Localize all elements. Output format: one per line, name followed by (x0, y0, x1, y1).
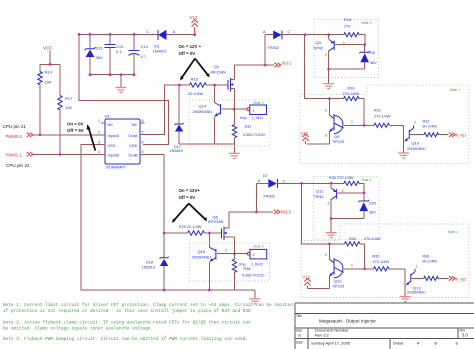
resistor R20 22-1/4W (164, 225, 221, 235)
svg-text:Q3: Q3 (316, 40, 322, 45)
wire clamp node ch1 (305, 34, 344, 36)
schottky D18 1N5819 (142, 233, 169, 290)
power V12 ch1 (301, 131, 309, 144)
svg-text:R15: R15 (191, 77, 199, 82)
resistor R32 1K-1/4W (422, 120, 449, 137)
dashed note3 box ch2 (189, 243, 269, 281)
svg-text:R32: R32 (423, 120, 430, 124)
svg-text:36V: 36V (370, 61, 377, 65)
svg-text:Sunday April 17, 2005: Sunday April 17, 2005 (311, 341, 351, 346)
node Q3 base / D6 junction (363, 43, 366, 46)
ground ch2 sense rail (249, 290, 260, 304)
svg-text:2N3904BU: 2N3904BU (192, 254, 212, 259)
svg-text:D7: D7 (263, 174, 268, 178)
MOSFET Q5 IRFZ34N (208, 212, 235, 254)
resistor R34 270-1/4W (329, 237, 380, 269)
svg-text:36V: 36V (96, 55, 103, 60)
svg-text:R35: R35 (373, 255, 380, 259)
svg-text:22-1/4W: 22-1/4W (188, 91, 203, 96)
resistor R36 1K-1/4W (422, 255, 449, 281)
diode D7 FR302 (257, 174, 302, 198)
svg-text:Off = 0V: Off = 0V (179, 51, 196, 56)
svg-text:Note 3: Flyback PWM damping ci: Note 3: Flyback PWM damping circuit. Cir… (3, 337, 248, 342)
node INJ-2 junction (255, 211, 258, 214)
wire Q5 drain to INJ2 node (229, 211, 257, 213)
wire ch1 sense rail (179, 143, 234, 145)
power V12 ch2 (303, 274, 311, 288)
svg-text:270-1/4W: 270-1/4W (343, 92, 360, 96)
svg-text:4.7: 4.7 (141, 54, 147, 59)
svg-text:OutB: OutB (128, 153, 137, 158)
svg-text:PWM0-1: PWM0-1 (6, 134, 23, 139)
capacitor C13 (105, 34, 125, 74)
zener D21 (85, 34, 104, 74)
diode D5 FR302 (263, 29, 305, 50)
wire clamp node ch2 (302, 182, 344, 184)
resistor R31 270-1/4W (364, 109, 404, 128)
svg-text:R18: R18 (344, 18, 351, 22)
svg-text:TIP42: TIP42 (314, 195, 324, 199)
resistor R14 (38, 64, 53, 134)
U4 pin 1 stub (101, 122, 105, 124)
ground clamp ch1 (323, 69, 334, 89)
wire clamp bottom ch2 (331, 218, 364, 220)
node PWM0/R14 junction (39, 133, 42, 136)
transistor Q9 TIP125 (307, 99, 364, 144)
resistor R33 270-1/4W (329, 176, 364, 193)
svg-text:TIP125: TIP125 (332, 140, 344, 144)
connector INJ-2 (257, 210, 292, 215)
node gate Q1 junction (213, 84, 216, 87)
svg-text:7: 7 (142, 130, 144, 134)
connector PWM1-1 CPU pin 22 (6, 152, 34, 168)
svg-text:V12: V12 (303, 274, 311, 279)
svg-text:NC: NC (108, 122, 114, 127)
svg-text:VCC: VCC (43, 46, 53, 51)
ground Q10 (398, 153, 409, 158)
svg-text:2N3904BU: 2N3904BU (193, 109, 213, 114)
node D7 cathode junction (300, 182, 303, 185)
svg-text:270-1/4W: 270-1/4W (364, 237, 381, 241)
dashed note1 box ch2 (301, 224, 469, 298)
svg-text:InputB: InputB (108, 153, 120, 158)
node R20 junction (163, 232, 166, 235)
svg-text:2: 2 (325, 109, 327, 113)
svg-text:C: C (146, 29, 149, 34)
svg-text:A: A (173, 29, 176, 34)
svg-text:D6: D6 (370, 51, 375, 55)
svg-text:Q10: Q10 (412, 141, 420, 146)
svg-text:2: 2 (98, 130, 100, 134)
svg-text:Q13: Q13 (413, 285, 421, 290)
VCC power symbol (43, 46, 53, 65)
node D18 rail junction (163, 289, 166, 292)
wire INJ node riser (264, 35, 266, 65)
node PWM1/R17 junction (59, 153, 62, 156)
transistor Q13 2N3904 (405, 264, 426, 296)
wire supply loop to VDD (79, 34, 169, 144)
svg-text:10K: 10K (45, 80, 52, 85)
svg-text:D21: D21 (96, 46, 104, 51)
wire PWM1 net (33, 153, 105, 155)
node Q15 collector junction (208, 232, 211, 235)
resistor R37 current sense (232, 109, 265, 144)
svg-text:Sheet: Sheet (393, 341, 404, 346)
svg-text:1: 1 (98, 119, 100, 123)
schottky D17 1N5819 (170, 85, 184, 153)
svg-text:Rev 3.2: Rev 3.2 (315, 333, 330, 338)
svg-text:Note 2: Note 2 (362, 21, 372, 25)
svg-text:A: A (263, 29, 266, 34)
svg-text:10K: 10K (65, 105, 72, 110)
wire R15 to Q1 gate (206, 84, 228, 86)
svg-text:Note 3: Note 3 (254, 101, 264, 105)
svg-text:8: 8 (142, 119, 144, 123)
svg-text:Q14: Q14 (199, 104, 207, 109)
node Q1 source junction (233, 108, 236, 111)
svg-text:VDD: VDD (129, 143, 138, 148)
svg-text:Q5: Q5 (213, 215, 219, 220)
wire Q1 drain to INJ node (235, 64, 266, 66)
node Q3 emitter junction (327, 33, 330, 36)
wire OutB net riser (140, 154, 164, 233)
svg-text:On = 12V+: On = 12V+ (179, 188, 201, 193)
svg-text:Q1: Q1 (214, 64, 220, 69)
svg-text:D20: D20 (369, 202, 376, 206)
connector PWM0-1 CPU pin 21 (3, 124, 34, 139)
svg-text:IRFZ34N: IRFZ34N (211, 70, 227, 74)
U4 pin numbers (98, 119, 144, 154)
svg-text:be omitted. Clamp voltage equa: be omitted. Clamp voltage equals zener a… (3, 327, 153, 332)
annotation gate levels ch1 (179, 44, 210, 81)
wire clamp node to Q9 base (305, 35, 330, 99)
svg-text:C: C (283, 179, 286, 184)
transistor Q11 TIP42 (314, 183, 364, 218)
svg-text:R17: R17 (65, 96, 73, 101)
svg-text:VSS: VSS (108, 143, 116, 148)
resistor R18 270 (344, 18, 365, 45)
connector INJ-1 (265, 61, 292, 68)
ground Q13 (400, 297, 411, 302)
svg-text:2: 2 (328, 202, 330, 206)
wire clamp bottom ch1 (329, 68, 365, 70)
svg-text:Q9: Q9 (334, 134, 340, 139)
svg-text:Title: Title (296, 314, 302, 318)
notes text block (3, 303, 293, 342)
zener D20 36V (358, 193, 376, 219)
svg-text:1N5819: 1N5819 (142, 265, 155, 269)
node VCC junction (49, 63, 52, 66)
node Q11 base / D20 junction (362, 192, 365, 195)
svg-text:1N4001: 1N4001 (153, 48, 168, 53)
svg-text:2: 2 (414, 121, 416, 125)
svg-text:C: C (288, 29, 291, 34)
svg-text:Note 1: Note 1 (448, 230, 458, 234)
svg-text:0.050-TO220: 0.050-TO220 (243, 133, 265, 137)
svg-text:2: 2 (416, 264, 418, 268)
svg-text:Note 2: Note 2 (362, 178, 372, 182)
power V12 top (190, 15, 198, 36)
svg-text:Off = 0V: Off = 0V (179, 195, 196, 200)
svg-text:1N5819: 1N5819 (170, 149, 183, 153)
svg-text:1: 1 (343, 41, 345, 45)
transistor Q10 2N3904 (404, 121, 426, 153)
svg-text:Jmp: Jmp (239, 263, 246, 267)
svg-text:R20 22-1/4W: R20 22-1/4W (179, 225, 202, 229)
transistor Q14 2N3904 (193, 85, 235, 144)
node Q11 emitter junction (330, 182, 333, 185)
svg-text:R33 270-1/4W: R33 270-1/4W (329, 176, 354, 180)
svg-text:2: 2 (325, 53, 327, 57)
connector fi_inj2 (449, 276, 467, 281)
svg-text:V12: V12 (190, 15, 198, 20)
svg-text:IXDM404PI: IXDM404PI (106, 166, 125, 170)
svg-text:0.060-TO220: 0.060-TO220 (242, 273, 264, 277)
U4 pin 8 stub (140, 122, 145, 124)
svg-text:Date: Date (296, 341, 303, 345)
svg-text:R14: R14 (45, 70, 53, 75)
svg-text:A: A (298, 333, 301, 338)
jumper J_INJ2 (235, 249, 267, 266)
svg-text:5: 5 (142, 150, 144, 154)
dashed note3 box ch1 (189, 100, 270, 146)
wire PWM0 net (33, 134, 105, 136)
resistor R17 (58, 64, 73, 154)
svg-text:fi_inj2: fi_inj2 (456, 276, 467, 281)
svg-text:Note 3: Note 3 (254, 244, 264, 248)
node Q5 source junction (233, 252, 236, 255)
svg-text:1K-1/4W: 1K-1/4W (422, 124, 437, 128)
svg-text:J_INJ1: J_INJ1 (252, 116, 264, 120)
svg-text:R30: R30 (348, 87, 355, 91)
svg-text:Megasquirt - Output Injector: Megasquirt - Output Injector (319, 319, 376, 324)
svg-text:1: 1 (342, 189, 344, 193)
node bottom bus junctions (89, 73, 136, 76)
svg-text:36V: 36V (369, 211, 376, 215)
resistor R35 270-1/4W (365, 255, 406, 271)
node top bus junctions (78, 33, 136, 36)
svg-text:On = 12V +: On = 12V + (179, 44, 202, 49)
node R34/R35 junction (363, 267, 366, 270)
wire VCC node horizontal (40, 63, 61, 65)
node Q15 emitter rail junction (208, 289, 211, 292)
svg-text:R37: R37 (245, 125, 252, 129)
svg-text:Q15: Q15 (198, 249, 206, 254)
svg-text:1: 1 (351, 264, 353, 268)
svg-text:Note 1: Current limit circuit: Note 1: Current limit circuit for driver… (3, 303, 293, 308)
node Q12 base junction (328, 242, 331, 245)
svg-text:270: 270 (344, 25, 350, 29)
svg-text:6: 6 (142, 140, 144, 144)
svg-text:3: 3 (98, 140, 100, 144)
svg-text:CPU pin 22: CPU pin 22 (6, 163, 30, 168)
ground ch1 sense rail (229, 144, 240, 158)
node R30/R31 junction (363, 124, 366, 127)
svg-text:InputA: InputA (108, 133, 120, 138)
node R15 left / D17 junction (178, 84, 181, 87)
wire bottom ground bus (90, 74, 134, 76)
svg-text:0.1: 0.1 (116, 49, 122, 54)
jumper J_INJ1 (234, 105, 267, 120)
ground clamp ch2 (326, 219, 337, 238)
svg-text:J_INJ2: J_INJ2 (251, 263, 263, 267)
svg-text:1K-1/4W: 1K-1/4W (422, 259, 437, 263)
capacitor C14 (129, 34, 149, 74)
node Q11 collector junction (330, 217, 333, 220)
transistor Q3 TIP42 (313, 35, 365, 69)
dashed note2 box ch2 (313, 177, 379, 240)
svg-text:INJ-2: INJ-2 (281, 210, 292, 215)
svg-text:TIP42: TIP42 (313, 46, 323, 50)
transistor Q15 2N3904 (192, 233, 235, 290)
svg-text:TIP125: TIP125 (332, 285, 344, 289)
svg-text:NC: NC (132, 122, 138, 127)
svg-text:if protection is not required: if protection is not required or desired… (3, 309, 251, 314)
zener D6 36V (359, 45, 377, 69)
svg-text:4: 4 (98, 150, 100, 154)
ground cap bank (116, 75, 127, 93)
node Q9 base junction (328, 97, 331, 100)
svg-text:R31: R31 (374, 109, 381, 113)
svg-text:INJ-1: INJ-1 (282, 61, 293, 66)
svg-text:OutA: OutA (128, 133, 137, 138)
svg-text:3.0: 3.0 (462, 333, 468, 338)
annotation U4 input levels (67, 122, 95, 151)
resistor R38 current sense (232, 254, 264, 290)
svg-text:1: 1 (351, 120, 353, 124)
node INJ-1 junction (264, 64, 267, 67)
MOSFET Q1 IRFZ34N (211, 64, 235, 109)
dashed note1 box ch1 (300, 85, 469, 163)
svg-text:R34: R34 (349, 237, 356, 241)
connector fi_inj1 (449, 133, 467, 138)
svg-text:IRFZ34N: IRFZ34N (208, 220, 224, 224)
svg-text:Off = 5V: Off = 5V (67, 128, 84, 133)
svg-text:Note 2: Active flyback clamp c: Note 2: Active flyback clamp circuit. If… (3, 320, 251, 325)
svg-text:D18: D18 (146, 261, 153, 265)
svg-text:Jmp: Jmp (240, 116, 247, 120)
diode D3 1N4001 (146, 29, 195, 53)
svg-text:270-1/4W: 270-1/4W (374, 114, 391, 118)
transistor Q12 TIP125 (308, 244, 365, 289)
wire clamp node to Q12 base (302, 183, 330, 244)
svg-text:R38: R38 (244, 267, 251, 271)
annotation gate levels ch2 (172, 188, 207, 223)
wire top supply bus (79, 33, 158, 35)
node D5 cathode junction (304, 33, 307, 36)
svg-text:On = 0V: On = 0V (67, 122, 84, 127)
wire VSS net loop (81, 145, 255, 291)
svg-text:2: 2 (325, 253, 327, 257)
title block (295, 303, 474, 349)
svg-text:U4: U4 (105, 114, 111, 119)
svg-text:2N3904BU: 2N3904BU (407, 147, 426, 151)
svg-text:2N3904BU: 2N3904BU (407, 291, 426, 295)
svg-text:Q11: Q11 (316, 189, 324, 194)
svg-text:FR302: FR302 (264, 195, 275, 199)
svg-text:PWM1-1: PWM1-1 (6, 152, 23, 157)
svg-text:R36: R36 (423, 255, 430, 259)
svg-text:fi_inj1: fi_inj1 (456, 133, 467, 138)
IC U4 IXDM404PI driver (105, 114, 141, 170)
node Q3 collector junction (327, 68, 330, 71)
svg-text:C14: C14 (141, 44, 149, 49)
wire INJ2 node riser (256, 183, 258, 212)
wire OutA net to R15 (140, 85, 190, 135)
resistor R30 270-1/4W (330, 87, 364, 126)
svg-text:270-1/4W: 270-1/4W (373, 260, 390, 264)
svg-text:3: 3 (325, 134, 327, 138)
dashed note2 box ch1 (314, 20, 378, 78)
svg-text:Note 1: Note 1 (450, 88, 460, 92)
svg-text:Q12: Q12 (334, 279, 342, 284)
svg-text:CPU pin 21: CPU pin 21 (3, 124, 27, 129)
svg-text:A: A (258, 178, 261, 183)
svg-text:FR302: FR302 (268, 46, 279, 50)
svg-text:2: 2 (225, 248, 227, 252)
resistor R15 22-1/4W (188, 77, 206, 97)
